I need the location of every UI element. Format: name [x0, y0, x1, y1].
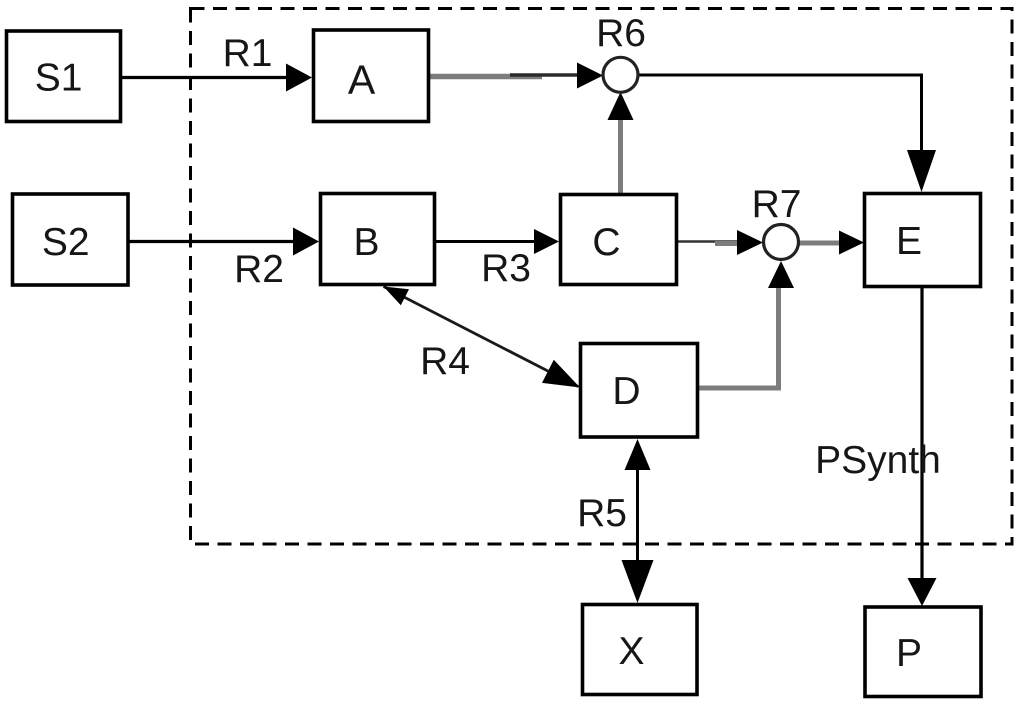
wire D to R7 — [697, 261, 794, 388]
wire R5 between D and X — [622, 439, 654, 603]
node R6 — [603, 57, 638, 92]
svg-text:R1: R1 — [223, 32, 273, 75]
wire C to R6 — [608, 92, 634, 194]
svg-text:E: E — [896, 220, 922, 263]
svg-text:R5: R5 — [577, 492, 627, 535]
wire S1 to A — [120, 64, 312, 92]
svg-text:X: X — [618, 630, 644, 673]
node R7 — [764, 225, 799, 260]
svg-text:S2: S2 — [42, 221, 90, 264]
svg-text:PSynth: PSynth — [815, 439, 941, 482]
svg-text:R4: R4 — [420, 340, 470, 383]
svg-text:C: C — [592, 221, 620, 264]
wire R6 to E — [637, 75, 937, 192]
svg-text:R2: R2 — [234, 248, 284, 291]
svg-text:S1: S1 — [35, 57, 83, 100]
wire R7 to E — [798, 231, 864, 255]
box C — [561, 195, 677, 285]
svg-text:R6: R6 — [596, 12, 646, 55]
box X — [583, 605, 698, 695]
box D — [581, 344, 698, 438]
svg-text:R3: R3 — [481, 247, 531, 290]
wire A to R6 — [428, 63, 603, 89]
svg-text:R7: R7 — [752, 183, 802, 226]
box S1 — [7, 31, 121, 122]
box S2 — [13, 194, 129, 285]
svg-text:B: B — [353, 221, 379, 264]
svg-text:A: A — [348, 57, 376, 103]
wire R4 between B and D — [384, 287, 581, 388]
box P — [865, 607, 981, 697]
box E — [865, 194, 981, 287]
wire C to R7 — [676, 230, 763, 255]
svg-text:D: D — [612, 370, 640, 413]
dashed system boundary — [191, 9, 1013, 545]
box B — [321, 194, 435, 285]
wire B to C — [434, 229, 559, 254]
wire S2 to B — [128, 228, 319, 256]
svg-text:P: P — [896, 632, 922, 675]
wire E to P (PSynth) — [908, 286, 937, 606]
box A — [314, 30, 429, 122]
